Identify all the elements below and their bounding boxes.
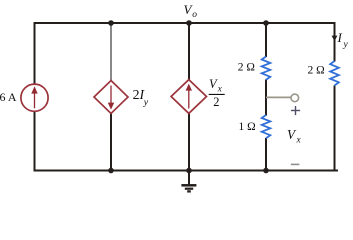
- terminal open circle: [291, 94, 299, 102]
- node Vo junction dot top branch3: [186, 20, 192, 26]
- current source I1 6A circle: [21, 84, 48, 111]
- svg-text:x: x: [217, 84, 222, 94]
- dependent source Vx/2 diamond: [171, 80, 206, 114]
- node junction dot top branch4: [263, 20, 269, 26]
- wire left upper: [34, 22, 36, 85]
- svg-text:2: 2: [213, 95, 219, 109]
- svg-text:y: y: [343, 40, 349, 50]
- resistor R1 2ohm zigzag (branch4): [262, 57, 271, 80]
- wire branch3 upper: [188, 23, 190, 81]
- wire branch2 upper (grey): [110, 23, 112, 82]
- label minus sign (Vx polarity): [291, 163, 300, 165]
- svg-text:1 Ω: 1 Ω: [239, 121, 256, 133]
- dependent source Vx/2 arrow (up): [186, 84, 192, 109]
- dependent source 2Iy diamond: [94, 81, 128, 114]
- ground stub: [188, 171, 190, 185]
- wire terminal tap (grey): [266, 96, 291, 98]
- current arrow Iy on right wire: [332, 36, 338, 42]
- resistor R2 1ohm zigzag: [262, 115, 271, 138]
- resistor R3 2ohm zigzag (right branch): [330, 61, 339, 86]
- wire right upper: [334, 22, 336, 62]
- wire right lower: [334, 86, 336, 172]
- node junction dot top branch2: [108, 20, 114, 26]
- label plus sign (Vx polarity): [291, 106, 300, 115]
- wire bottom rail: [34, 170, 339, 172]
- wire branch4 upper: [265, 23, 267, 57]
- wire branch3 lower: [188, 113, 190, 171]
- wire branch4 middle: [265, 80, 267, 116]
- svg-text:y: y: [143, 97, 149, 108]
- wire branch4 lower: [265, 138, 267, 171]
- wire left lower: [34, 111, 36, 172]
- node junction dot bottom branch4: [263, 168, 269, 174]
- ground bar 1: [181, 184, 196, 187]
- svg-text:6 A: 6 A: [0, 90, 17, 104]
- svg-text:x: x: [296, 136, 302, 146]
- node junction dot bottom branch3: [186, 168, 192, 174]
- svg-text:o: o: [192, 10, 197, 20]
- svg-text:I: I: [337, 30, 343, 45]
- svg-text:V: V: [287, 127, 297, 142]
- dependent source 2Iy arrow (down): [108, 86, 114, 110]
- ground bar 2: [185, 188, 193, 190]
- svg-text:2 Ω: 2 Ω: [308, 65, 325, 77]
- svg-text:2 Ω: 2 Ω: [238, 61, 255, 73]
- current source I1 arrow: [31, 86, 37, 108]
- ground bar 3: [187, 190, 191, 192]
- wire top rail: [34, 22, 336, 24]
- wire branch2 lower: [110, 113, 112, 171]
- svg-text:V: V: [209, 77, 218, 91]
- node junction dot bottom branch2: [108, 168, 114, 174]
